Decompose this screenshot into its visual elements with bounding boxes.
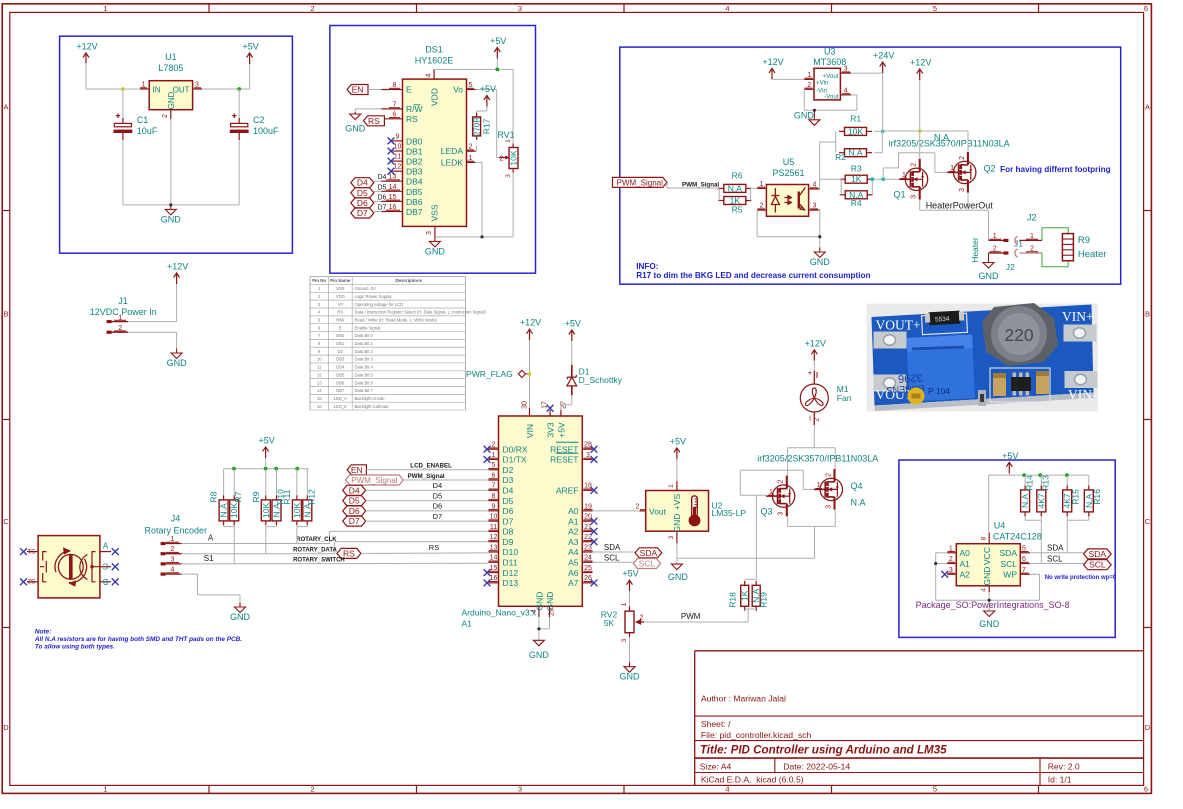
svg-text:D6: D6	[433, 502, 443, 511]
svg-text:5: 5	[933, 785, 937, 794]
svg-text:13: 13	[317, 380, 322, 385]
svg-text:D13: D13	[503, 578, 519, 588]
hier label RS (LCD)	[364, 116, 385, 126]
svg-text:Sheet: /: Sheet: /	[701, 719, 731, 729]
svg-text:A1: A1	[462, 619, 473, 629]
svg-text:3: 3	[518, 4, 522, 13]
power supply section box	[60, 36, 293, 253]
svg-text:R17 to dim the BKG LED and dec: R17 to dim the BKG LED and decrease curr…	[636, 271, 870, 280]
svg-text:N.A: N.A	[728, 183, 743, 193]
ground GND (U1)	[165, 205, 176, 215]
svg-text:C: C	[102, 562, 108, 571]
svg-text:D11: D11	[503, 557, 518, 567]
svg-text:+12V: +12V	[805, 338, 826, 348]
wire VSS ground bus	[435, 236, 513, 238]
svg-text:Data Bit 1: Data Bit 1	[355, 341, 374, 346]
svg-text:2: 2	[640, 615, 644, 622]
svg-text:HY1602E: HY1602E	[415, 56, 454, 66]
svg-text:Data Bit 0: Data Bit 0	[355, 333, 374, 338]
U5 pin 1	[757, 187, 766, 189]
svg-text:1: 1	[505, 139, 512, 143]
svg-text:L7805: L7805	[158, 63, 183, 73]
wire U5 pin2 return	[756, 210, 758, 237]
ground GND (LCD)	[429, 237, 440, 247]
junction pullup rail	[295, 467, 299, 471]
svg-text:D7: D7	[433, 512, 443, 521]
DS1 pin 7 R/W	[381, 108, 402, 110]
svg-text:+5V: +5V	[258, 435, 274, 445]
wire U3 pin2/pin4 loop	[803, 89, 805, 110]
svg-text:E: E	[406, 85, 412, 95]
wire U5 pin3 down	[819, 210, 821, 237]
ground GND (heater)	[983, 253, 994, 268]
svg-text:J2: J2	[1027, 213, 1037, 223]
rotary encoder switch contact	[43, 552, 47, 582]
svg-text:VCC: VCC	[982, 547, 992, 565]
resistor R6 N.A	[724, 184, 746, 192]
svg-text:SDA: SDA	[1000, 548, 1018, 558]
hier labels D4-D7 (arduino)	[343, 485, 366, 495]
svg-text:SDA: SDA	[604, 543, 621, 552]
svg-text:R2: R2	[835, 152, 846, 162]
svg-text:+12V: +12V	[167, 262, 188, 272]
svg-text:Id: 1/1: Id: 1/1	[1048, 775, 1072, 785]
svg-text:3: 3	[778, 512, 785, 516]
svg-text:All N.A resistors are for havi: All N.A resistors are for having both SM…	[34, 636, 242, 643]
DS1 pins 13-16 DB4-DB7	[381, 180, 402, 182]
power symbol +12V (U3)	[769, 68, 775, 79]
U1 pin 2	[170, 110, 172, 119]
svg-text:Data / Instruction Register Se: Data / Instruction Register Select (H: D…	[355, 310, 487, 315]
svg-text:N.A: N.A	[1020, 493, 1030, 508]
svg-text:RS: RS	[337, 310, 343, 315]
svg-text:To allow using both types.: To allow using both types.	[35, 644, 115, 651]
svg-text:D3: D3	[503, 475, 514, 485]
hier label SDA (arduino)	[635, 548, 662, 558]
no-connect RESET28	[591, 446, 598, 453]
U2 pin 1 +VS	[676, 481, 678, 490]
svg-text:3: 3	[505, 174, 512, 178]
svg-text:GND: GND	[982, 567, 992, 586]
svg-text:+VS: +VS	[672, 494, 682, 511]
svg-text:Fan: Fan	[837, 393, 852, 403]
U2 pin 3 GND	[676, 531, 678, 543]
svg-text:10K: 10K	[261, 503, 271, 518]
svg-text:S1: S1	[204, 554, 214, 563]
svg-text:3: 3	[518, 785, 522, 794]
svg-text:VSS: VSS	[429, 204, 439, 221]
svg-text:U4: U4	[994, 521, 1006, 531]
svg-text:A2: A2	[960, 570, 971, 580]
svg-text:1K: 1K	[740, 590, 750, 601]
svg-text:U3: U3	[824, 47, 836, 57]
wire U4 A0/A1 to GND	[936, 552, 947, 554]
wire heater source bus	[919, 200, 921, 211]
wire gate drive loop	[740, 494, 766, 496]
wire U3 pin3 to +24V	[851, 72, 883, 74]
power symbol +12V (heater fets)	[917, 69, 923, 80]
svg-text:D7: D7	[357, 208, 368, 218]
no-connect A3	[591, 538, 598, 545]
U4 pin 8 VCC	[988, 533, 990, 544]
svg-text:D: D	[3, 723, 9, 732]
power symbol +12V (VIN)	[527, 329, 533, 340]
svg-text:EN: EN	[352, 85, 364, 95]
svg-text:Vout: Vout	[649, 507, 667, 517]
wire U4 SDA	[1030, 552, 1084, 554]
svg-text:R/W: R/W	[336, 317, 344, 322]
svg-text:Data Bit 2: Data Bit 2	[355, 349, 374, 354]
svg-text:LCD_ENABEL: LCD_ENABEL	[410, 463, 452, 470]
svg-text:D5: D5	[357, 188, 368, 198]
U4 pin 2 A1	[947, 563, 956, 565]
svg-text:5K: 5K	[604, 618, 615, 628]
U3 pin 4	[840, 94, 851, 96]
svg-text:1: 1	[103, 4, 107, 13]
junction A1 gnd	[934, 562, 937, 565]
svg-text:U5: U5	[783, 157, 795, 167]
svg-text:R1: R1	[850, 114, 861, 124]
svg-text:Logic Power Supply: Logic Power Supply	[355, 294, 393, 299]
power symbol +5V (LCD VDD)	[494, 48, 500, 59]
wire R11/R12 tie	[297, 526, 307, 528]
svg-text:12: 12	[317, 372, 322, 377]
wire +VS to +5V	[676, 459, 678, 481]
wire ground bus of U1	[123, 204, 239, 206]
power symbol +5V (U1 output)	[247, 53, 253, 64]
svg-text:Data Bit 6: Data Bit 6	[355, 380, 374, 385]
svg-text:DB3: DB3	[406, 167, 423, 177]
svg-text:ROTARY_CLK: ROTARY_CLK	[296, 537, 337, 543]
junction pullup rail	[264, 467, 268, 471]
ground GND (RV2)	[624, 662, 635, 672]
svg-text:C: C	[3, 517, 9, 526]
junction +12V heater rail	[918, 129, 922, 133]
DS1 pins 9-12 DB0-DB3 with no-connect	[392, 140, 402, 142]
svg-text:N.A: N.A	[219, 503, 229, 518]
svg-text:D5: D5	[433, 491, 443, 500]
DS1 pin 1 LEDK	[467, 161, 476, 163]
svg-text:DS1: DS1	[425, 45, 443, 55]
svg-text:PWM_Signal: PWM_Signal	[682, 181, 719, 188]
A1 pin 30 VIN	[529, 408, 531, 416]
svg-text:R7: R7	[233, 491, 243, 502]
junction eeprom rail	[1038, 473, 1042, 477]
svg-text:30: 30	[521, 401, 528, 409]
wire R15 to SDA	[1066, 520, 1068, 553]
svg-text:2: 2	[814, 417, 821, 421]
svg-text:+5V: +5V	[242, 42, 258, 52]
svg-text:GND: GND	[545, 592, 555, 611]
wire fan source bus	[787, 516, 789, 526]
svg-text:Backlight Cathode: Backlight Cathode	[355, 404, 390, 409]
svg-text:3: 3	[911, 195, 918, 199]
svg-text:B: B	[3, 310, 8, 319]
svg-text:+5V: +5V	[490, 36, 506, 46]
U3 pin 1	[804, 78, 814, 80]
svg-text:D6: D6	[349, 506, 360, 516]
svg-text:270R: 270R	[473, 117, 482, 136]
svg-text:D5: D5	[378, 184, 387, 191]
svg-text:2: 2	[500, 155, 504, 162]
svg-text:D4: D4	[433, 481, 443, 490]
junction R3 right	[870, 177, 874, 181]
svg-text:2: 2	[778, 480, 785, 484]
svg-text:LEDK: LEDK	[441, 158, 464, 168]
svg-text:220: 220	[1004, 325, 1033, 345]
wire R6/R5 ties	[718, 188, 720, 200]
svg-text:Operating voltage for LCD: Operating voltage for LCD	[355, 302, 404, 307]
svg-text:R19: R19	[759, 592, 769, 608]
rotary pin A	[100, 551, 111, 553]
capacitor C1 10uF	[122, 89, 124, 118]
heater section box	[620, 47, 1121, 284]
wire J4 pin4 to GND	[182, 573, 198, 575]
wire PWM_Signal to D3	[403, 479, 488, 481]
junction eeprom rail	[1065, 473, 1069, 477]
junction pullup rail	[274, 467, 278, 471]
svg-text:A: A	[208, 533, 214, 542]
wire R9/R10 tie	[266, 526, 277, 528]
svg-text:J2: J2	[1006, 262, 1015, 272]
svg-text:GND: GND	[620, 672, 641, 682]
svg-text:Q4: Q4	[851, 481, 863, 491]
wire arduino GND pins	[538, 617, 540, 640]
svg-text:P 104: P 104	[928, 386, 950, 396]
svg-text:GND: GND	[534, 592, 544, 611]
svg-text:SCL: SCL	[1047, 554, 1063, 563]
photo MT3608 module	[867, 304, 1098, 412]
svg-text:R12: R12	[306, 489, 316, 505]
svg-text:DB3: DB3	[336, 357, 345, 362]
wire +12V to VIN	[529, 340, 531, 408]
svg-text:+: +	[808, 369, 813, 378]
wire R3/R4 right tie	[871, 179, 873, 195]
svg-text:Arduino_Nano_v3.x: Arduino_Nano_v3.x	[462, 608, 537, 618]
svg-text:2: 2	[959, 156, 966, 160]
sheet frame division ticks	[208, 4, 210, 13]
junction +5V / C2	[237, 87, 241, 91]
resistor R17 270R	[473, 117, 481, 136]
svg-text:4: 4	[725, 785, 729, 794]
svg-text:SCL: SCL	[639, 559, 656, 569]
svg-text:R9: R9	[1078, 235, 1090, 246]
svg-text:R18: R18	[728, 592, 738, 608]
svg-text:9: 9	[396, 133, 400, 140]
wire A4 SDA	[593, 551, 636, 553]
U3 pin 2	[804, 88, 814, 90]
svg-text:D8: D8	[503, 527, 514, 537]
svg-text:For having differnt footpring: For having differnt footpring	[1000, 165, 1111, 174]
wire RV2 pin1 to +5V	[629, 591, 631, 606]
svg-text:KiCad E.D.A. kicad (6.0.5): KiCad E.D.A. kicad (6.0.5)	[701, 775, 804, 785]
svg-text:3: 3	[959, 188, 966, 192]
junction PWR_FLAG	[528, 372, 532, 376]
rotary pin C	[100, 566, 111, 568]
heating element R9 Heater	[1062, 234, 1073, 261]
svg-text:14: 14	[317, 388, 322, 393]
svg-text:D4: D4	[378, 174, 387, 181]
svg-text:SCL: SCL	[1000, 559, 1017, 569]
U4 pin 6 SCL	[1020, 563, 1030, 565]
svg-text:INFO:: INFO:	[636, 262, 658, 271]
rotary pin S1	[27, 551, 38, 553]
rotary pin S2	[27, 581, 38, 583]
junction eeprom rail	[1022, 473, 1026, 477]
svg-text:+5V: +5V	[480, 84, 496, 94]
svg-text:A4: A4	[568, 547, 579, 557]
DS1 pin 6 RS	[381, 118, 402, 120]
svg-text:S2: S2	[27, 577, 35, 584]
svg-text:10K: 10K	[292, 503, 302, 518]
svg-text:DB5: DB5	[336, 372, 345, 377]
no-connect D1	[484, 456, 491, 463]
svg-text:GND: GND	[167, 91, 176, 109]
svg-text:A2: A2	[568, 527, 579, 537]
svg-text:+5V: +5V	[670, 436, 686, 446]
svg-text:2: 2	[162, 114, 169, 118]
wire R9 to ROTARY_DATA	[265, 527, 267, 554]
svg-text:R15: R15	[1071, 489, 1081, 505]
DS1 pin 4 VDD	[433, 69, 435, 79]
junction LEDK ground	[480, 235, 483, 238]
J1 pin 1	[107, 321, 128, 323]
power symbol +5V (pullups)	[263, 447, 269, 458]
no-connect D12	[484, 569, 491, 576]
svg-text:R6: R6	[732, 171, 743, 181]
junction U5 emitter ground	[818, 235, 821, 238]
resistor R2 N.A	[845, 149, 867, 157]
U4 pin 5 SDA	[1020, 552, 1030, 554]
resistor R5 1K	[724, 197, 746, 205]
svg-text:J4: J4	[171, 514, 181, 524]
svg-text:Title: PID Controller using Ar: Title: PID Controller using Arduino and …	[700, 744, 947, 757]
svg-text:R16: R16	[1092, 489, 1102, 505]
ground GND (LM35)	[671, 564, 682, 570]
svg-text:ROTARY_SWITCH: ROTARY_SWITCH	[293, 558, 345, 564]
svg-text:3V3: 3V3	[546, 422, 556, 437]
wire RS to D10	[361, 552, 488, 555]
transistor Q1	[899, 159, 928, 200]
svg-text:-Vout: -Vout	[824, 93, 839, 100]
svg-text:DB0: DB0	[406, 136, 423, 146]
wire gate branch to Q2	[882, 168, 884, 179]
optocoupler U5 PS2561	[766, 185, 808, 217]
svg-text:3: 3	[825, 505, 832, 509]
no-connect A2	[591, 528, 598, 535]
svg-text:IN: IN	[153, 85, 161, 94]
svg-text:DB7: DB7	[336, 388, 345, 393]
hier label SCL (eeprom)	[1084, 560, 1112, 570]
svg-text:Rotary Encoder: Rotary Encoder	[145, 526, 208, 536]
wire R17 to LEDA	[476, 145, 478, 151]
U5 pin 3	[809, 209, 820, 211]
svg-text:3: 3	[426, 231, 433, 235]
svg-text:DB1: DB1	[336, 341, 345, 346]
svg-text:SCL: SCL	[1089, 560, 1106, 570]
wire +12V to U1 pin 1	[85, 63, 87, 89]
ground GND (R/W)	[350, 112, 361, 120]
J1 pin 2	[107, 331, 128, 333]
svg-text:D4: D4	[357, 178, 368, 188]
svg-text:1: 1	[103, 785, 107, 794]
svg-text:N.A: N.A	[851, 498, 866, 508]
svg-text:15: 15	[317, 396, 322, 401]
svg-text:D6: D6	[503, 506, 514, 516]
svg-text:11: 11	[317, 365, 322, 370]
svg-text:C: C	[1145, 517, 1151, 526]
capacitor C2 100uF	[238, 89, 240, 118]
svg-text:+12V: +12V	[762, 57, 783, 67]
svg-text:VDD: VDD	[336, 294, 345, 299]
junction +12V / C1	[121, 87, 125, 91]
svg-text:A6: A6	[568, 568, 579, 578]
svg-text:2: 2	[825, 473, 832, 477]
svg-text:DB6: DB6	[336, 380, 345, 385]
svg-text:+5V: +5V	[565, 319, 581, 329]
svg-text:1: 1	[668, 484, 675, 488]
rotary encoder switch body	[38, 536, 100, 598]
svg-text:D6: D6	[357, 198, 368, 208]
wire R3 to Q1 gate	[872, 178, 899, 180]
svg-text:CAT24C128: CAT24C128	[993, 532, 1042, 542]
svg-text:RESET: RESET	[550, 455, 578, 465]
svg-text:A5: A5	[568, 557, 579, 567]
svg-text:B: B	[1145, 310, 1150, 319]
svg-text:PWM_Signal: PWM_Signal	[617, 178, 663, 187]
svg-text:Q3: Q3	[760, 507, 772, 517]
svg-text:LED_K: LED_K	[334, 404, 347, 409]
wire ROTARY_SWITCH	[182, 562, 489, 565]
wire heater load green loop	[1042, 228, 1068, 267]
regulator U1 L7805	[149, 81, 192, 110]
svg-text:A7: A7	[568, 578, 579, 588]
resistors R13-R16	[1024, 475, 1026, 485]
hier label SCL (arduino)	[633, 559, 660, 569]
svg-text:ROTARY_DATA: ROTARY_DATA	[293, 548, 337, 554]
svg-text:VIN+: VIN+	[1062, 309, 1094, 324]
svg-text:2: 2	[635, 504, 639, 511]
junction ground bus	[169, 203, 172, 206]
svg-text:EN: EN	[351, 465, 363, 475]
svg-text:irf3205/2SK3570/IPB11N03LA: irf3205/2SK3570/IPB11N03LA	[757, 454, 878, 464]
svg-text:RS: RS	[429, 543, 439, 552]
svg-text:3: 3	[668, 535, 675, 539]
junction pullup rail	[232, 467, 236, 471]
motor M1 Fan	[813, 361, 815, 371]
svg-text:VOUT+: VOUT+	[876, 318, 921, 333]
svg-text:10K: 10K	[848, 126, 863, 136]
svg-text:4K7: 4K7	[1036, 493, 1046, 508]
wire EN to DS1	[368, 89, 381, 91]
rotary encoder detent and common	[80, 555, 88, 580]
svg-text:N.A: N.A	[848, 148, 863, 158]
boost module U3 MT3608	[814, 68, 840, 100]
svg-text:U1: U1	[165, 52, 177, 62]
svg-text:10: 10	[317, 357, 322, 362]
svg-text:R14: R14	[1024, 475, 1034, 491]
svg-text:Date: 2022-05-14: Date: 2022-05-14	[783, 762, 850, 772]
svg-text:R13: R13	[1041, 475, 1051, 491]
svg-text:D0/RX: D0/RX	[503, 444, 528, 454]
svg-text:+12V: +12V	[520, 318, 541, 328]
svg-text:R8: R8	[209, 491, 219, 502]
svg-text:Heater: Heater	[1078, 249, 1107, 260]
svg-text:PS2561: PS2561	[772, 168, 804, 178]
svg-text:DB4: DB4	[336, 365, 345, 370]
ground GND (arduino)	[533, 640, 544, 646]
svg-text:D10: D10	[503, 547, 519, 557]
